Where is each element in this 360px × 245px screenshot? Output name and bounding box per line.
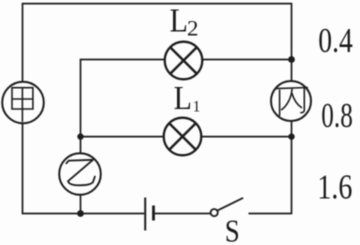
svg-text:2: 2 [187, 16, 199, 41]
svg-text:S: S [225, 214, 240, 245]
svg-text:1: 1 [193, 98, 201, 115]
svg-text:L: L [170, 3, 188, 40]
svg-text:0.8: 0.8 [321, 97, 353, 135]
svg-text:L: L [174, 80, 192, 117]
svg-text:0.4: 0.4 [318, 22, 353, 60]
svg-text:1.6: 1.6 [317, 169, 352, 207]
